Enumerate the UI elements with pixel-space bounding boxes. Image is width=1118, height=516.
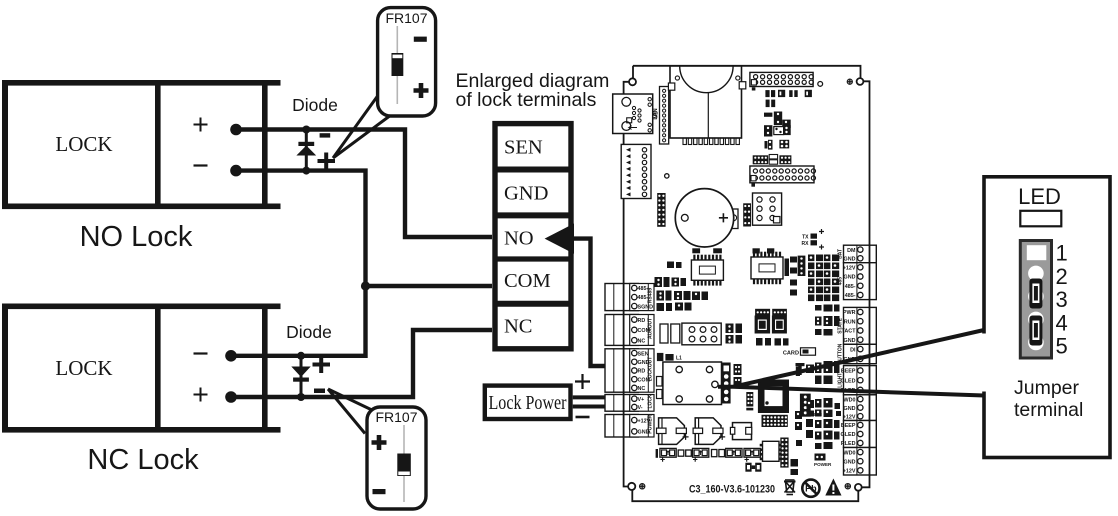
diode D2 (NC lock) xyxy=(291,352,310,401)
svg-text:SEN: SEN xyxy=(504,137,543,159)
pad matrix B xyxy=(780,438,788,468)
capacitor C14 xyxy=(767,248,774,253)
warning triangle xyxy=(825,479,841,496)
arrow into NO xyxy=(545,224,574,254)
header P2 2x10 xyxy=(750,166,816,187)
pin strip S1 xyxy=(755,309,787,316)
svg-text:CARD: CARD xyxy=(783,351,799,357)
header P6 1col xyxy=(800,394,823,417)
FR107 callout box top xyxy=(378,8,436,116)
svg-text:LOCK: LOCK xyxy=(55,132,112,156)
svg-text:NC Lock: NC Lock xyxy=(87,444,199,476)
NC Lock box xyxy=(2,304,281,433)
diode D2 minus mark xyxy=(314,389,325,394)
SMD matrix block xyxy=(808,255,839,302)
jumper pin 2 xyxy=(1028,266,1044,282)
connector reader 8pin left xyxy=(621,144,651,198)
svg-text:M1: M1 xyxy=(654,111,660,118)
mounting hole top-right xyxy=(857,78,864,85)
wire NC+ to NC terminal xyxy=(231,330,492,397)
svg-text:Lock Power: Lock Power xyxy=(489,392,567,414)
connector state right xyxy=(838,307,877,344)
svg-text:GND: GND xyxy=(844,406,856,412)
FR107 callout top leader lines xyxy=(333,94,391,158)
connector J-RS485 left xyxy=(605,284,654,311)
svg-text:RUN: RUN xyxy=(844,319,856,325)
svg-text:RX: RX xyxy=(802,241,810,247)
battery BT1 xyxy=(675,189,738,247)
jumper terminal J1 on PCB xyxy=(722,363,731,404)
SMD pair right of J1 xyxy=(734,364,742,388)
svg-text:AUXOUT: AUXOUT xyxy=(648,318,654,339)
relay K1 footprint xyxy=(682,323,721,345)
capacitor C15 xyxy=(660,324,668,343)
svg-text:RLED: RLED xyxy=(841,441,856,447)
wire lock power V- xyxy=(573,405,616,409)
svg-text:485-: 485- xyxy=(845,284,856,290)
mounting hole bottom-right xyxy=(855,484,862,491)
svg-text:+12V: +12V xyxy=(843,266,856,272)
via hole xyxy=(665,174,669,178)
svg-text:Jumper: Jumper xyxy=(1014,377,1080,399)
svg-text:GND: GND xyxy=(504,183,548,205)
svg-text:LOCK: LOCK xyxy=(648,394,654,409)
LED indicator rectangle xyxy=(1020,211,1061,227)
svg-text:+12V: +12V xyxy=(843,414,856,420)
SMD cluster left-mid xyxy=(655,262,709,312)
svg-text:TACT: TACT xyxy=(842,329,857,335)
svg-text:POWER: POWER xyxy=(648,414,654,433)
inductor L1 xyxy=(657,353,682,362)
svg-text:NO Lock: NO Lock xyxy=(80,221,193,253)
svg-text:485-: 485- xyxy=(845,293,856,299)
transformer T3 xyxy=(772,316,789,346)
svg-text:L1: L1 xyxy=(676,356,682,362)
header P4 2x4 xyxy=(743,203,751,226)
svg-text:NO: NO xyxy=(504,228,534,250)
svg-text:V-: V- xyxy=(638,405,643,411)
wire NO+ to NO terminal xyxy=(236,130,492,238)
diode D1 (NO lock) xyxy=(296,126,316,175)
svg-text:LOCKOUT: LOCKOUT xyxy=(648,357,654,382)
NO Lock plus terminal label xyxy=(194,118,208,132)
svg-text:2: 2 xyxy=(1056,264,1068,289)
wire NO out to PCB xyxy=(572,239,616,366)
svg-text:GND: GND xyxy=(844,338,856,344)
connector reader3 right xyxy=(843,448,877,476)
relay K2 xyxy=(663,362,722,405)
svg-text:SGND: SGND xyxy=(638,304,654,310)
FR107 callout box bottom xyxy=(367,407,426,509)
screw mark top-right xyxy=(847,79,852,84)
jumper block body xyxy=(1020,241,1051,359)
NO Lock terminal dot plus xyxy=(230,124,242,136)
IC U5 xyxy=(753,193,782,225)
screw mark bottom-left xyxy=(640,484,645,489)
SMD scatter A xyxy=(806,305,841,418)
NC Lock terminal dot minus xyxy=(225,350,237,362)
wire COM branch xyxy=(366,284,493,288)
header M1 xyxy=(654,87,674,145)
LED TX RX xyxy=(802,229,824,250)
jumper cap on 2-3 xyxy=(1029,279,1042,309)
capacitor row small top xyxy=(806,419,813,438)
connector battery right xyxy=(838,245,877,263)
NC Lock minus terminal label xyxy=(194,352,208,354)
SMD column right of U2 xyxy=(790,257,797,296)
svg-text:1: 1 xyxy=(1056,241,1068,266)
transistor T pattern xyxy=(796,363,805,375)
jumper cap on 4-5 xyxy=(1029,316,1042,346)
svg-text:LED: LED xyxy=(1018,184,1061,209)
capacitor C3 xyxy=(730,423,751,440)
NO Lock minus terminal label xyxy=(194,164,208,166)
connector J-AUXOUT left xyxy=(605,315,654,346)
SMD scatter bottom right xyxy=(791,411,840,475)
connector 485 right xyxy=(838,263,877,300)
SMD cluster right of auxout xyxy=(726,324,743,344)
WEEE bin symbol xyxy=(784,480,796,495)
pad matrix A xyxy=(762,415,788,427)
svg-text:FR107: FR107 xyxy=(375,409,417,425)
svg-text:GND: GND xyxy=(844,257,856,263)
NC Lock plus terminal label xyxy=(194,388,208,402)
PCB board outline xyxy=(624,66,870,501)
svg-text:DI: DI xyxy=(850,347,856,353)
svg-text:RS485: RS485 xyxy=(648,288,654,304)
svg-text:3: 3 xyxy=(1056,287,1068,312)
mounting hole bottom-left xyxy=(628,483,635,490)
connector J-LOCKOUT left xyxy=(605,349,654,392)
svg-text:NC: NC xyxy=(638,386,646,392)
svg-text:GLED: GLED xyxy=(841,432,856,438)
capacitor C13 xyxy=(753,248,760,253)
FR107 callout bottom leader lines xyxy=(328,389,373,434)
svg-text:5: 5 xyxy=(1056,334,1068,359)
header P5 xyxy=(798,256,806,276)
svg-text:LOCK: LOCK xyxy=(55,356,112,380)
IC U2 SOIC xyxy=(751,252,783,284)
wire NO- down to NC- with COM branch xyxy=(231,171,366,356)
svg-text:WD0: WD0 xyxy=(844,397,856,403)
svg-text:POWER: POWER xyxy=(814,462,832,467)
svg-text:4: 4 xyxy=(1056,310,1068,335)
svg-text:NC: NC xyxy=(638,338,646,344)
NC Lock terminal dot plus xyxy=(225,391,237,403)
SMD cluster middle xyxy=(764,112,791,150)
capacitor C16 xyxy=(671,324,680,343)
SMD pair mid xyxy=(796,367,800,377)
LED callout box xyxy=(980,177,1110,458)
svg-text:DM: DM xyxy=(847,248,856,254)
IC U1 SOIC xyxy=(691,255,723,286)
svg-text:SEN: SEN xyxy=(638,351,649,357)
pin strip pair xyxy=(753,155,792,165)
capacitor C11 xyxy=(692,248,700,253)
svg-text:C3_160-V3.6-101230: C3_160-V3.6-101230 xyxy=(689,484,775,496)
svg-text:RD: RD xyxy=(638,318,646,324)
crystal X1 xyxy=(746,392,753,410)
connector wiegand out right xyxy=(838,366,877,395)
header P3 2x7 xyxy=(657,193,665,227)
power smd xyxy=(814,454,832,468)
svg-text:BEEP: BEEP xyxy=(841,423,856,429)
connector J-POWER left xyxy=(605,414,654,437)
screw mark bottom-right xyxy=(845,484,850,489)
capacitor C2 xyxy=(693,418,725,445)
SMD cluster top xyxy=(765,90,812,107)
svg-text:NC: NC xyxy=(504,316,532,338)
lock terminal strip xyxy=(493,124,574,349)
jumper pin 3 xyxy=(1028,289,1044,305)
svg-text:GND: GND xyxy=(844,275,856,281)
svg-text:Diode: Diode xyxy=(286,322,332,342)
IC U4 DIP xyxy=(760,441,782,461)
varistor pair xyxy=(745,463,761,472)
jumper pin 4 xyxy=(1028,312,1044,328)
Lock Power box xyxy=(485,386,571,419)
jumper pin 5 xyxy=(1028,335,1044,351)
svg-text:TX: TX xyxy=(802,235,809,241)
leader lines PCB jumper to LED box xyxy=(718,330,984,396)
diode D1 minus mark xyxy=(320,133,331,137)
svg-text:LIGHT: LIGHT xyxy=(838,373,844,388)
NO Lock box xyxy=(2,80,281,209)
svg-text:RD: RD xyxy=(638,369,646,375)
diode D1 plus mark xyxy=(318,153,336,170)
resistor network RN1 xyxy=(785,259,790,277)
CARD label component xyxy=(783,348,816,357)
svg-text:PWR: PWR xyxy=(843,310,856,316)
Pb-free symbol xyxy=(802,480,819,497)
diode row bottom xyxy=(656,448,767,461)
svg-text:+12V: +12V xyxy=(843,469,856,475)
transformer module T1 xyxy=(668,66,745,145)
svg-text:V+: V+ xyxy=(638,397,645,403)
Lock Power minus mark xyxy=(576,416,590,419)
capacitor C12 xyxy=(713,248,722,253)
connector button right xyxy=(838,343,877,364)
connector LAN xyxy=(613,94,659,134)
connector J-LOCK left xyxy=(605,394,654,411)
svg-text:Diode: Diode xyxy=(292,95,338,115)
capacitor C1 xyxy=(657,418,689,445)
NO Lock terminal dot minus xyxy=(230,165,242,177)
jumper position 1 pad xyxy=(1027,245,1047,260)
svg-text:terminal: terminal xyxy=(1014,399,1083,421)
connector reader1 right xyxy=(843,395,877,421)
svg-text:WD0: WD0 xyxy=(844,450,856,456)
junction dot COM xyxy=(361,281,370,290)
svg-text:of lock terminals: of lock terminals xyxy=(456,89,597,111)
diode D5 xyxy=(657,377,663,387)
svg-text:COM: COM xyxy=(504,270,551,292)
pad hole right of P1 xyxy=(818,82,823,87)
resistor R9 xyxy=(657,390,663,399)
mounting hole top-left xyxy=(629,78,636,85)
svg-text:FR107: FR107 xyxy=(385,10,427,26)
header P1 2x9 xyxy=(750,72,813,90)
IC U3 QFP xyxy=(758,380,789,414)
wire lock power V+ xyxy=(573,395,616,399)
svg-text:GND: GND xyxy=(844,459,856,465)
Lock Power plus mark xyxy=(575,374,590,389)
PCB board outline fill xyxy=(624,66,870,501)
connector reader2 right xyxy=(841,421,877,448)
transformer T2 xyxy=(755,316,771,346)
diode D2 plus mark xyxy=(313,356,331,373)
